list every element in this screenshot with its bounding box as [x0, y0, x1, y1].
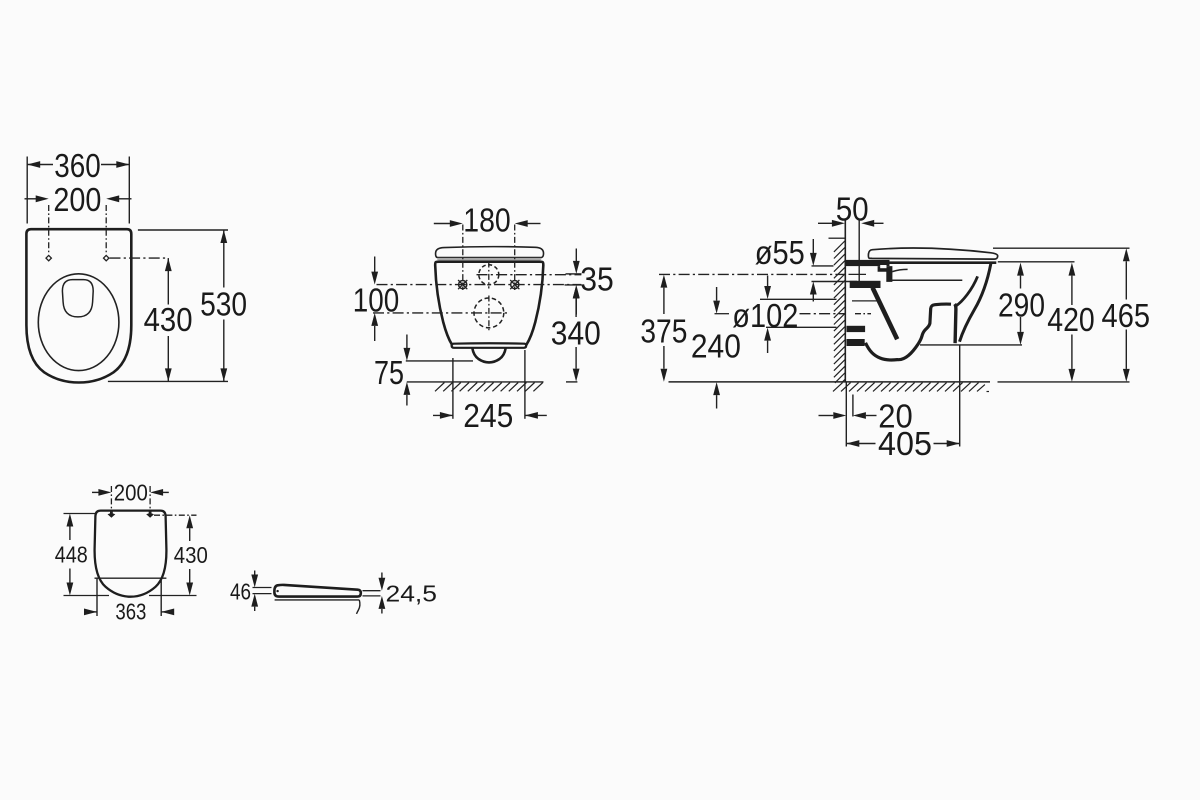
dimension 180: [434, 223, 450, 225]
o102 centerline dash-dot: [373, 312, 510, 314]
dimension 35 extension lines: [566, 273, 582, 275]
hinge block (L shaped): [878, 266, 893, 282]
hinge centerline left (dash-dot): [48, 205, 50, 254]
svg-text:35: 35: [580, 262, 614, 299]
dimension 290: [1017, 263, 1024, 276]
o55 crosshair: [488, 262, 490, 289]
extension line top right corner to 530: [138, 229, 228, 231]
o55 centerline dash-dot: [477, 274, 582, 276]
svg-text:ø55: ø55: [755, 235, 805, 272]
hinge dash-dot verticals: [110, 486, 112, 514]
hinge marker diamond left: [46, 255, 51, 260]
rear view: foot band: [452, 343, 527, 348]
inlet center tick inside pipe: [849, 273, 867, 275]
o102 extension lines: [760, 298, 837, 300]
inlet hole circle o55 (dashed): [479, 265, 499, 285]
hinge slot (white notch): [880, 265, 886, 268]
seat cover outline: [95, 511, 167, 597]
wall top cap: [829, 237, 845, 239]
24,5 extension lines: [363, 590, 381, 592]
extension line left of 360: [26, 157, 28, 224]
o55 extension lines: [812, 265, 834, 267]
wall hatching: [834, 241, 845, 383]
bowl inner front wall: [955, 304, 956, 343]
svg-text:245: 245: [463, 398, 513, 435]
outer front face: [960, 264, 991, 342]
dimension 100 arrows: [374, 257, 376, 273]
o102 crosshair: [488, 296, 490, 331]
svg-text:180: 180: [463, 203, 511, 240]
dimension 363: [87, 611, 98, 613]
seat lid profile: [868, 248, 997, 259]
dimension 405: [846, 440, 859, 447]
floor hatching: [833, 383, 989, 392]
dimension 75 reference line: [406, 360, 473, 362]
svg-text:420: 420: [1047, 302, 1095, 339]
bumper tail: [357, 600, 360, 614]
water line: [892, 279, 963, 281]
dimension 360: [27, 164, 53, 166]
extension line 405 right / bowl tip vertical: [959, 346, 961, 447]
dimension 430 (seat): [186, 515, 193, 528]
bowl underside and trap curve: [866, 304, 952, 360]
svg-text:50: 50: [836, 191, 869, 228]
dimension 46 arrows: [254, 571, 256, 576]
dimension 200: [25, 198, 38, 200]
svg-text:448: 448: [55, 541, 88, 567]
bottom extension line for dims: [998, 381, 1130, 383]
top view: inner bowl rim: [38, 274, 119, 371]
seat profile wedge: [274, 585, 360, 597]
widest point chord line: [95, 577, 167, 579]
svg-text:430: 430: [174, 542, 208, 568]
dimension 448: [67, 514, 74, 527]
outlet hole circle o102 (dashed): [474, 298, 504, 328]
dimension 20: [819, 415, 834, 417]
hinge pin left: [108, 511, 116, 518]
180 extension dash-dot verticals: [462, 225, 464, 291]
svg-text:200: 200: [53, 182, 101, 219]
hinge line horizontal dash-dot to 430 dim: [110, 257, 169, 259]
dimension 340: [573, 286, 580, 299]
dimension 50: [818, 222, 832, 224]
body: rim top bar (thick black, back): [846, 260, 890, 266]
o102 arrows: [767, 276, 769, 287]
hinge marker diamond right: [104, 255, 109, 260]
dimension 465: [1123, 248, 1130, 261]
rear view: body outline: [435, 262, 543, 345]
inlet centerline dash-dot: [659, 273, 845, 275]
extension line 20 right: [852, 395, 854, 417]
245 extension verticals: [452, 358, 454, 419]
svg-text:405: 405: [878, 426, 932, 463]
outlet pipe upper bar: [847, 326, 866, 332]
hinge centerline dash-dot to 430: [154, 514, 197, 516]
dimension 530: [223, 230, 225, 288]
50 right extension line: [858, 219, 860, 283]
mounting holes centerline dash-dot: [377, 284, 582, 286]
svg-text:360: 360: [54, 148, 101, 185]
o102 centerline dash-dot: [800, 313, 846, 315]
dimension 240: [716, 287, 718, 301]
448 extension lines: [64, 513, 96, 515]
svg-text:24,5: 24,5: [386, 580, 438, 606]
svg-text:375: 375: [640, 313, 687, 350]
svg-text:340: 340: [551, 315, 601, 352]
lower black bar under inlet: [850, 281, 881, 288]
363 extension verticals: [96, 578, 98, 616]
extension line bottom to 530: [108, 380, 228, 382]
extension line wall below floor: [845, 383, 847, 447]
svg-text:290: 290: [998, 287, 1045, 324]
430 bottom extension: [149, 595, 197, 597]
inner rim hook line: [892, 269, 907, 271]
hinge pin right: [146, 511, 154, 518]
dimension 430: [167, 258, 169, 304]
hinge centerline right (dash-dot): [105, 205, 107, 254]
dimension 35 arrows: [575, 249, 577, 263]
rear floor line: [407, 381, 544, 383]
o55 arrows: [812, 239, 814, 253]
flush channel diagonal: [873, 288, 898, 340]
extension line bottom of bowl (290): [920, 344, 1022, 346]
svg-text:46: 46: [230, 578, 251, 604]
svg-text:240: 240: [691, 329, 741, 366]
svg-text:ø102: ø102: [732, 298, 798, 335]
rear floor hatching: [435, 383, 543, 392]
body: rim line: [888, 261, 996, 264]
under line: [275, 599, 360, 601]
dimension 75 arrows: [406, 335, 408, 349]
inner front upper curve: [956, 276, 978, 306]
wall face line: [844, 219, 846, 382]
dimension 375: [661, 275, 668, 288]
o102 centerline tick: [715, 313, 730, 315]
extension line right of 360: [128, 157, 130, 224]
hinge pin dot: [276, 590, 278, 592]
46 extension lines: [253, 587, 272, 589]
svg-text:363: 363: [115, 599, 146, 625]
dimension 24,5 arrows: [381, 573, 383, 579]
svg-text:75: 75: [374, 355, 404, 392]
svg-text:465: 465: [1102, 298, 1151, 335]
svg-text:530: 530: [200, 286, 247, 323]
dimension 200 (seat): [92, 491, 99, 493]
mounting hole left: [459, 281, 467, 289]
mounting hole right: [511, 281, 519, 289]
svg-text:430: 430: [144, 302, 193, 339]
rear view: gray shadow band under lid: [437, 258, 541, 260]
svg-text:100: 100: [353, 283, 400, 320]
rear view: seat lid: [436, 247, 544, 258]
top extension line from rim (420/290): [998, 261, 1075, 263]
o102 centerline short segment inside body: [855, 313, 871, 315]
outlet pipe lower bar: [847, 339, 865, 346]
top extension line from lid (465): [993, 247, 1130, 249]
floor line: [669, 381, 991, 383]
top view: water surface: [62, 280, 93, 317]
top view: bowl outline: [26, 229, 131, 382]
dimension 245: [433, 414, 453, 416]
rear view: trap bump: [472, 348, 505, 363]
dimension 420: [1069, 263, 1076, 276]
svg-text:200: 200: [114, 479, 148, 505]
